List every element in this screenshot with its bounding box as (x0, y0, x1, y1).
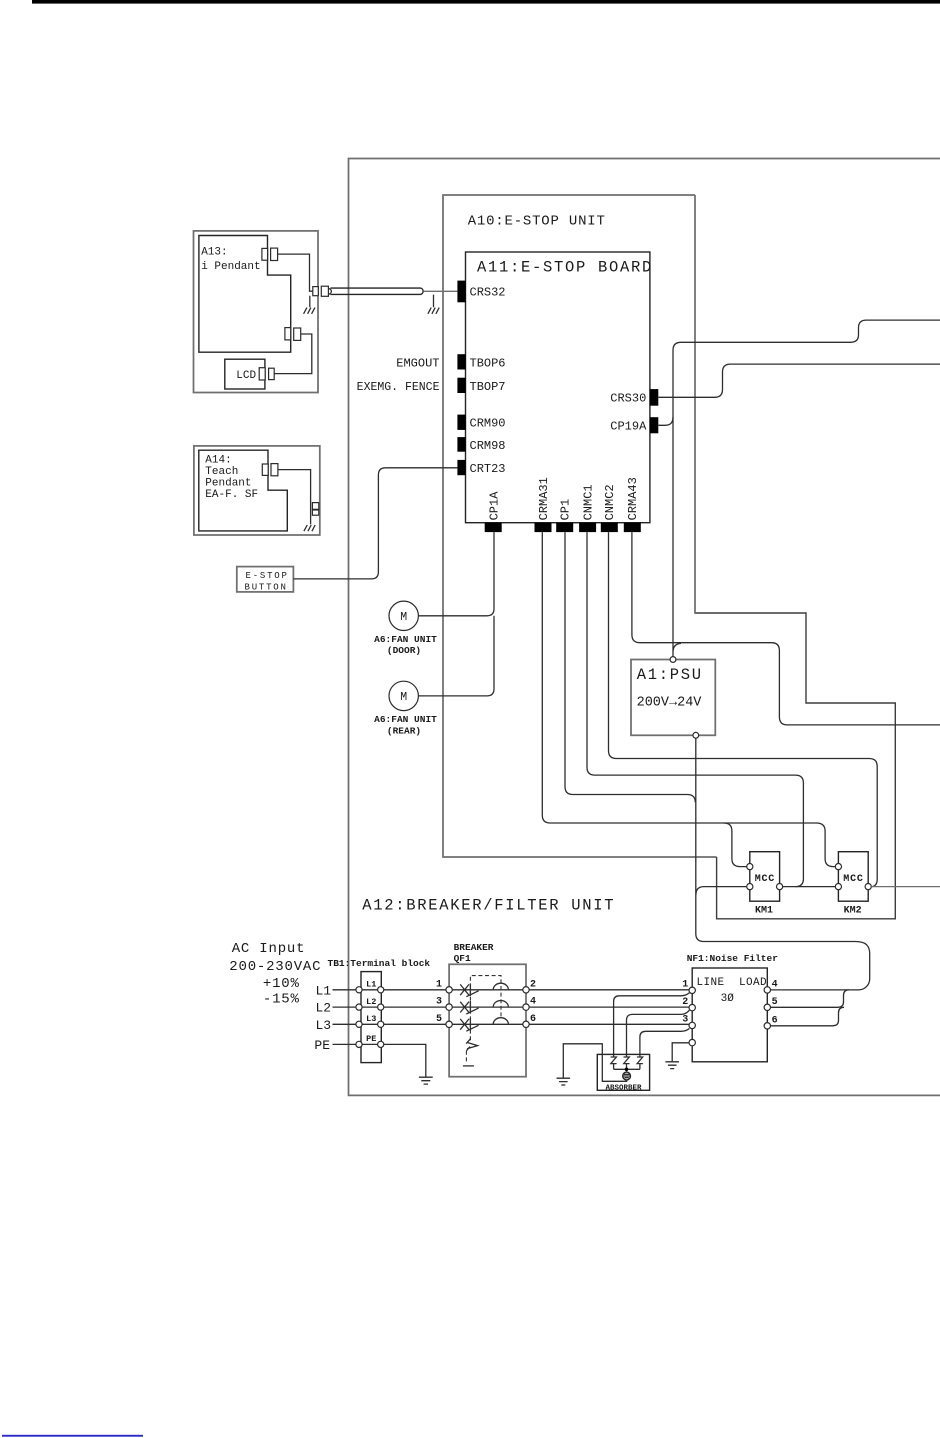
svg-text:L2: L2 (316, 1001, 332, 1016)
connector CP1 (556, 523, 573, 532)
A13 i Pendant outer box (194, 231, 319, 393)
svg-text:CNMC1: CNMC1 (581, 484, 595, 520)
PE ground symbol (419, 1077, 433, 1084)
svg-text:A14:: A14: (205, 455, 231, 467)
svg-text:-15%: -15% (263, 992, 300, 1008)
absorber bus (614, 1068, 640, 1070)
svg-text:i Pendant: i Pendant (201, 261, 260, 273)
A14 Teach Pendant outer box (194, 446, 320, 535)
svg-text:TBOP6: TBOP6 (470, 357, 506, 371)
svg-text:ABSORBER: ABSORBER (605, 1084, 642, 1092)
A14 inner board (199, 450, 287, 531)
svg-text:CNMC2: CNMC2 (603, 484, 617, 520)
wire fan2 joining fan1 riser (418, 616, 494, 696)
wire branch to KM1 coil (724, 823, 747, 867)
junction arc CRMA43/PSU-top vertical (673, 643, 681, 651)
breaker internal row 3 (452, 1018, 523, 1031)
NF1 load terminals (764, 987, 770, 993)
connector CRMA43 (624, 523, 641, 532)
svg-text:CP19A: CP19A (610, 420, 647, 434)
wire CP19A stub (658, 417, 673, 425)
absorber lead 3 (640, 1029, 690, 1057)
ground at cable left (309, 296, 311, 308)
wire CP1 to PSU output net (565, 532, 695, 802)
connector CRM90 (457, 415, 465, 430)
svg-text:A6:FAN UNIT: A6:FAN UNIT (374, 714, 437, 725)
svg-text:(REAR): (REAR) (387, 725, 421, 736)
wire L2 row (333, 1006, 447, 1008)
absorber zigzag 3 (637, 1057, 643, 1069)
svg-text:TB1:Terminal block: TB1:Terminal block (328, 958, 431, 969)
A14 edge connector squares (312, 503, 318, 510)
absorber ground wire (563, 1044, 626, 1082)
NF1 line terminals (689, 987, 695, 993)
svg-text:200V→24V: 200V→24V (637, 696, 703, 711)
E-STOP BUTTON box (237, 567, 294, 592)
svg-text:LCD: LCD (236, 370, 256, 382)
wire KM1 lower-left to PSU output net (696, 887, 747, 895)
A13 top connector pair (262, 248, 268, 260)
wire PE row (333, 1043, 384, 1045)
svg-text:TBOP7: TBOP7 (470, 380, 506, 394)
A1 PSU box (631, 660, 715, 736)
absorber box (597, 1054, 649, 1090)
svg-text:200-230VAC: 200-230VAC (229, 959, 321, 975)
svg-text:5: 5 (436, 1014, 442, 1025)
wire KM1 right to KM2 lower-left (783, 886, 835, 888)
fan motor M1 (389, 601, 418, 630)
svg-text:MCC: MCC (843, 874, 863, 885)
svg-text:A13:: A13: (201, 246, 227, 258)
A13 lower connector pair (285, 328, 291, 340)
PSU input terminal node (670, 657, 676, 663)
LCD connector pair (259, 368, 265, 380)
wire CP19A / PSU-top net exiting right (673, 320, 940, 656)
svg-text:NF1:Noise Filter: NF1:Noise Filter (687, 953, 779, 964)
connector CNMC2 (601, 523, 618, 532)
wire NF1 load5 (771, 990, 850, 1007)
top black bar (32, 0, 940, 4)
svg-text:Pendant: Pendant (205, 477, 251, 489)
svg-text:A6:FAN UNIT: A6:FAN UNIT (374, 634, 437, 645)
wire fan1 to CP1A (418, 532, 494, 616)
wire A13 board to LCD (274, 334, 312, 374)
cable connector shells (313, 287, 319, 296)
breaker QF1 box (449, 964, 526, 1076)
svg-text:3: 3 (682, 1015, 688, 1026)
connector CRT23 (457, 460, 465, 475)
svg-text:PE: PE (366, 1034, 376, 1044)
svg-text:AC Input: AC Input (232, 941, 306, 957)
svg-text:2: 2 (682, 997, 688, 1008)
wire NF1 ground terminal (672, 1043, 689, 1062)
wire A13 connector to cable (278, 254, 313, 291)
svg-text:BUTTON: BUTTON (245, 582, 288, 592)
svg-text:6: 6 (772, 1015, 778, 1026)
absorber external ground symbol (557, 1078, 571, 1085)
absorber lead 1 (614, 993, 690, 1057)
wire KM2 right exiting right (871, 886, 940, 888)
svg-text:A1:PSU: A1:PSU (637, 666, 703, 684)
breaker trip mechanism (466, 1039, 477, 1051)
svg-text:QF1: QF1 (454, 953, 471, 964)
outer enclosure box (349, 159, 940, 1096)
wire A14 connector to edge connector (278, 470, 311, 525)
svg-text:3: 3 (436, 997, 442, 1008)
svg-text:CRS30: CRS30 (610, 392, 646, 406)
absorber earth terminal symbol (626, 1071, 628, 1072)
wire CRS30 exiting right (658, 364, 940, 397)
wire CNMC1 to KM bus (587, 532, 803, 887)
absorber zigzag 2 (624, 1057, 630, 1069)
svg-text:CRS32: CRS32 (470, 286, 506, 300)
wire CRMA43 exiting right (632, 532, 940, 725)
svg-text:CP1: CP1 (559, 499, 573, 521)
breaker internal row 2 (452, 1001, 523, 1015)
connector CRS32 (457, 281, 465, 303)
NF1 ground symbol (665, 1062, 679, 1069)
svg-text:E-STOP: E-STOP (246, 571, 289, 581)
ground at cable right (433, 295, 435, 308)
svg-text:LOAD: LOAD (739, 977, 767, 989)
PSU output terminal node (693, 732, 699, 738)
connector CRS30 (650, 389, 658, 406)
svg-text:1: 1 (682, 980, 688, 991)
wire CNMC2 to KM2 right (609, 532, 878, 887)
svg-text:LINE: LINE (697, 977, 725, 989)
svg-text:A11:E-STOP BOARD: A11:E-STOP BOARD (477, 259, 653, 277)
svg-text:5: 5 (772, 997, 778, 1008)
KM2 contactor MCC (838, 852, 868, 902)
connector TBOP7 (457, 378, 465, 393)
A10 E-STOP UNIT boundary (443, 195, 717, 857)
svg-text:A10:E-STOP UNIT: A10:E-STOP UNIT (468, 214, 606, 230)
svg-text:2: 2 (530, 979, 536, 990)
svg-text:4: 4 (772, 980, 778, 991)
KM1 contactor MCC (750, 852, 780, 902)
wire PE to ground (384, 1044, 426, 1077)
LCD box (225, 359, 265, 389)
svg-text:EA-F. SF: EA-F. SF (205, 489, 258, 501)
svg-text:1: 1 (436, 979, 442, 990)
svg-text:KM2: KM2 (844, 906, 862, 917)
svg-text:Teach: Teach (205, 466, 238, 478)
svg-text:L3: L3 (316, 1018, 332, 1033)
svg-text:CRMA43: CRMA43 (626, 477, 640, 520)
connector CRM98 (457, 437, 465, 452)
svg-text:MCC: MCC (755, 874, 775, 885)
svg-text:6: 6 (530, 1014, 536, 1025)
svg-text:BREAKER: BREAKER (454, 942, 494, 953)
connector TBOP6 (457, 354, 465, 369)
svg-text:M: M (400, 611, 407, 624)
pendant cable body (330, 288, 423, 294)
bottom blue link line (2, 1435, 143, 1437)
svg-text:L3: L3 (366, 1014, 376, 1024)
svg-text:CRM90: CRM90 (470, 417, 506, 431)
wire L1 row (333, 989, 447, 991)
svg-text:L2: L2 (366, 997, 376, 1007)
wire CRMA31 to KM2 coil (542, 532, 835, 867)
absorber junction dot (625, 1068, 629, 1072)
A11 E-STOP BOARD box (466, 252, 650, 523)
absorber lead 2 (627, 1010, 690, 1056)
connector CRMA31 (535, 523, 552, 532)
absorber zigzag 1 (611, 1057, 617, 1069)
wires breaker to NF1 (529, 989, 689, 991)
svg-text:(DOOR): (DOOR) (387, 645, 421, 656)
svg-text:CRMA31: CRMA31 (537, 477, 551, 520)
A14 connector pair (262, 464, 268, 475)
connector CP19A (650, 417, 658, 433)
svg-text:KM1: KM1 (755, 906, 773, 917)
A13 inner board (199, 236, 291, 353)
connector CP1A (485, 523, 502, 532)
svg-text:EXEMG. FENCE: EXEMG. FENCE (357, 381, 440, 394)
breaker internal row 1 (452, 983, 523, 997)
breaker terminals (446, 987, 452, 993)
svg-text:3Ø: 3Ø (721, 993, 735, 1005)
svg-text:PE: PE (314, 1038, 330, 1053)
ground in A14 (304, 525, 315, 531)
wire PSU output to NF1 load (696, 738, 870, 990)
svg-text:+10%: +10% (263, 976, 300, 992)
connector CNMC1 (579, 523, 596, 532)
svg-text:A12:BREAKER/FILTER UNIT: A12:BREAKER/FILTER UNIT (362, 897, 615, 915)
svg-text:CRT23: CRT23 (470, 462, 506, 476)
wire NF1 load6 (771, 1007, 845, 1026)
breaker trip linkage dashed (470, 976, 501, 1041)
svg-text:L1: L1 (316, 983, 332, 998)
wire E-STOP to CRT23 (293, 468, 457, 579)
svg-text:CRM98: CRM98 (470, 439, 506, 453)
svg-text:M: M (400, 691, 407, 704)
wire L3 row (333, 1023, 447, 1025)
fan motor M2 (389, 681, 418, 710)
svg-text:EMGOUT: EMGOUT (396, 357, 439, 371)
svg-text:CP1A: CP1A (488, 491, 502, 521)
svg-text:4: 4 (530, 997, 536, 1008)
wire cable to CRS32 (424, 290, 457, 292)
svg-text:L1: L1 (366, 980, 376, 990)
